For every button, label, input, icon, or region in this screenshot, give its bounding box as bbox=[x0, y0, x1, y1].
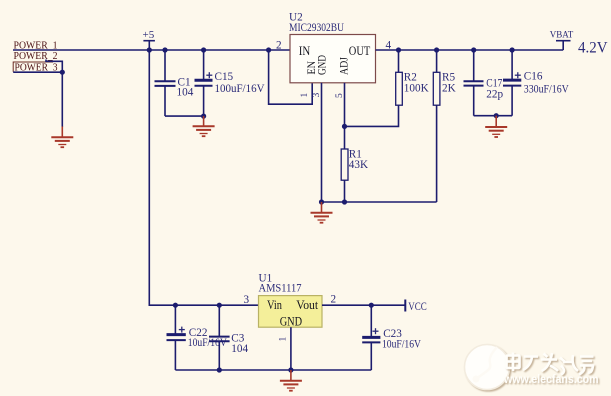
node EN tie on rail bbox=[266, 47, 271, 52]
wire C1 bottom to C15 ground bbox=[165, 115, 204, 117]
svg-text:IN: IN bbox=[299, 44, 311, 58]
node GND rail junction bbox=[319, 199, 324, 204]
resistor R1 bbox=[341, 126, 368, 202]
svg-text:3: 3 bbox=[244, 294, 250, 306]
svg-text:2: 2 bbox=[331, 294, 337, 306]
svg-text:1: 1 bbox=[279, 337, 289, 342]
wire +5 drop to U1 bbox=[149, 50, 258, 305]
wire POWER_1 to rail bbox=[13, 49, 290, 51]
svg-text:2K: 2K bbox=[442, 83, 456, 95]
power +5 bbox=[143, 29, 155, 50]
svg-text:104: 104 bbox=[177, 87, 194, 99]
wire OUT rail bbox=[376, 49, 564, 51]
node C3 bottom bbox=[217, 367, 222, 372]
capacitor C16 bbox=[503, 50, 569, 116]
node R5 on rail bbox=[434, 47, 439, 52]
capacitor C15 bbox=[195, 50, 265, 116]
wire C17 C16 bottom bbox=[474, 115, 512, 117]
svg-text:100K: 100K bbox=[404, 83, 429, 95]
svg-text:1: 1 bbox=[300, 93, 310, 98]
svg-text:GND: GND bbox=[314, 55, 328, 75]
wire U1 Vout to VCC bbox=[322, 304, 406, 306]
wire POWER junction to ground bbox=[61, 72, 63, 127]
svg-text:VCC: VCC bbox=[408, 301, 427, 313]
wire U2 ADJ pin down bbox=[344, 83, 346, 127]
capacitor C3 bbox=[209, 305, 248, 370]
resistor R5 bbox=[433, 50, 455, 202]
node R1 bottom bbox=[342, 199, 347, 204]
svg-text:OUT: OUT bbox=[349, 44, 371, 58]
node C3 on rail bbox=[217, 303, 222, 308]
node C1 on rail bbox=[162, 47, 167, 52]
wire bottom ground rail bbox=[175, 369, 371, 371]
node +5 on rail bbox=[147, 47, 152, 52]
svg-text:3: 3 bbox=[312, 93, 322, 98]
port POWER_1 bbox=[14, 39, 58, 51]
svg-text:4.2V: 4.2V bbox=[578, 39, 608, 56]
node ADJ junction bbox=[342, 124, 347, 129]
capacitor C17 bbox=[464, 50, 504, 116]
wire EN tie bbox=[269, 50, 313, 104]
port POWER_2 bbox=[14, 50, 58, 62]
svg-text:GND: GND bbox=[280, 315, 302, 329]
ground U2 bbox=[311, 202, 333, 223]
svg-text:100uF/16V: 100uF/16V bbox=[215, 83, 265, 95]
svg-text:VBAT: VBAT bbox=[550, 30, 574, 40]
svg-text:10uF/16V: 10uF/16V bbox=[188, 337, 227, 349]
svg-text:ADJ: ADJ bbox=[337, 57, 351, 75]
node POWER junction bbox=[60, 70, 65, 75]
node C16 on rail bbox=[509, 47, 514, 52]
svg-text:10uF/16V: 10uF/16V bbox=[382, 339, 421, 351]
node R2 on rail bbox=[396, 47, 401, 52]
ground C17C16 bbox=[485, 116, 507, 137]
node C15 ground junction bbox=[201, 114, 206, 119]
wire ADJ to R2 bbox=[345, 105, 399, 126]
op-amp U2 MIC29302BU bbox=[289, 12, 376, 83]
wire POWER_3 bbox=[13, 71, 62, 73]
svg-text:MIC29302BU: MIC29302BU bbox=[289, 22, 344, 34]
watermark text bbox=[503, 353, 598, 387]
wire POWER_2 down bbox=[46, 60, 62, 73]
power VCC bbox=[405, 300, 427, 313]
svg-text:+5: +5 bbox=[143, 29, 155, 41]
ground U1 bbox=[280, 370, 302, 391]
capacitor C23 bbox=[362, 305, 421, 370]
svg-text:www.elecfans.com: www.elecfans.com bbox=[503, 372, 598, 386]
ground C15 bbox=[193, 116, 215, 136]
ground POWER bbox=[51, 127, 73, 148]
svg-text:104: 104 bbox=[231, 343, 248, 355]
node U1 GND junction bbox=[288, 367, 293, 372]
node C17C16 ground junction bbox=[494, 113, 499, 118]
wire ground rail U2 bbox=[322, 201, 437, 203]
svg-text:Vout: Vout bbox=[296, 298, 318, 312]
wire U1 GND down bbox=[290, 327, 292, 370]
svg-text:2: 2 bbox=[276, 39, 282, 51]
wire U2 GND pin down bbox=[321, 83, 323, 202]
svg-text:22p: 22p bbox=[486, 89, 503, 101]
power VBAT bbox=[550, 30, 574, 50]
svg-text:C15: C15 bbox=[215, 71, 234, 83]
svg-text:43K: 43K bbox=[349, 159, 368, 171]
voltage regulator U1 AMS1117 bbox=[259, 273, 323, 329]
capacitor C1 bbox=[155, 50, 194, 116]
node C23 on rail bbox=[369, 303, 374, 308]
resistor R2 bbox=[396, 50, 429, 105]
svg-text:C16: C16 bbox=[524, 71, 543, 83]
node C22 on rail bbox=[173, 303, 178, 308]
node C17 on rail bbox=[471, 47, 476, 52]
svg-text:Vin: Vin bbox=[267, 298, 283, 312]
port POWER_3 bbox=[13, 62, 58, 74]
watermark logo circle bbox=[465, 345, 510, 390]
node C15 on rail bbox=[201, 47, 206, 52]
svg-text:AMS1117: AMS1117 bbox=[259, 283, 302, 295]
svg-text:330uF/16V: 330uF/16V bbox=[524, 84, 569, 96]
capacitor C22 bbox=[167, 305, 227, 370]
svg-text:POWER_2: POWER_2 bbox=[14, 50, 58, 62]
